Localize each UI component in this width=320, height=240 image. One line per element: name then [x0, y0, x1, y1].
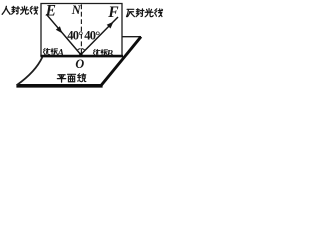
svg-text:E: E [45, 3, 56, 20]
svg-text:O: O [75, 57, 84, 71]
svg-text:40°: 40° [84, 29, 100, 43]
svg-text:F: F [107, 4, 119, 21]
svg-text:40°: 40° [67, 29, 83, 43]
svg-text:N: N [71, 3, 82, 17]
svg-text:A: A [57, 49, 64, 59]
